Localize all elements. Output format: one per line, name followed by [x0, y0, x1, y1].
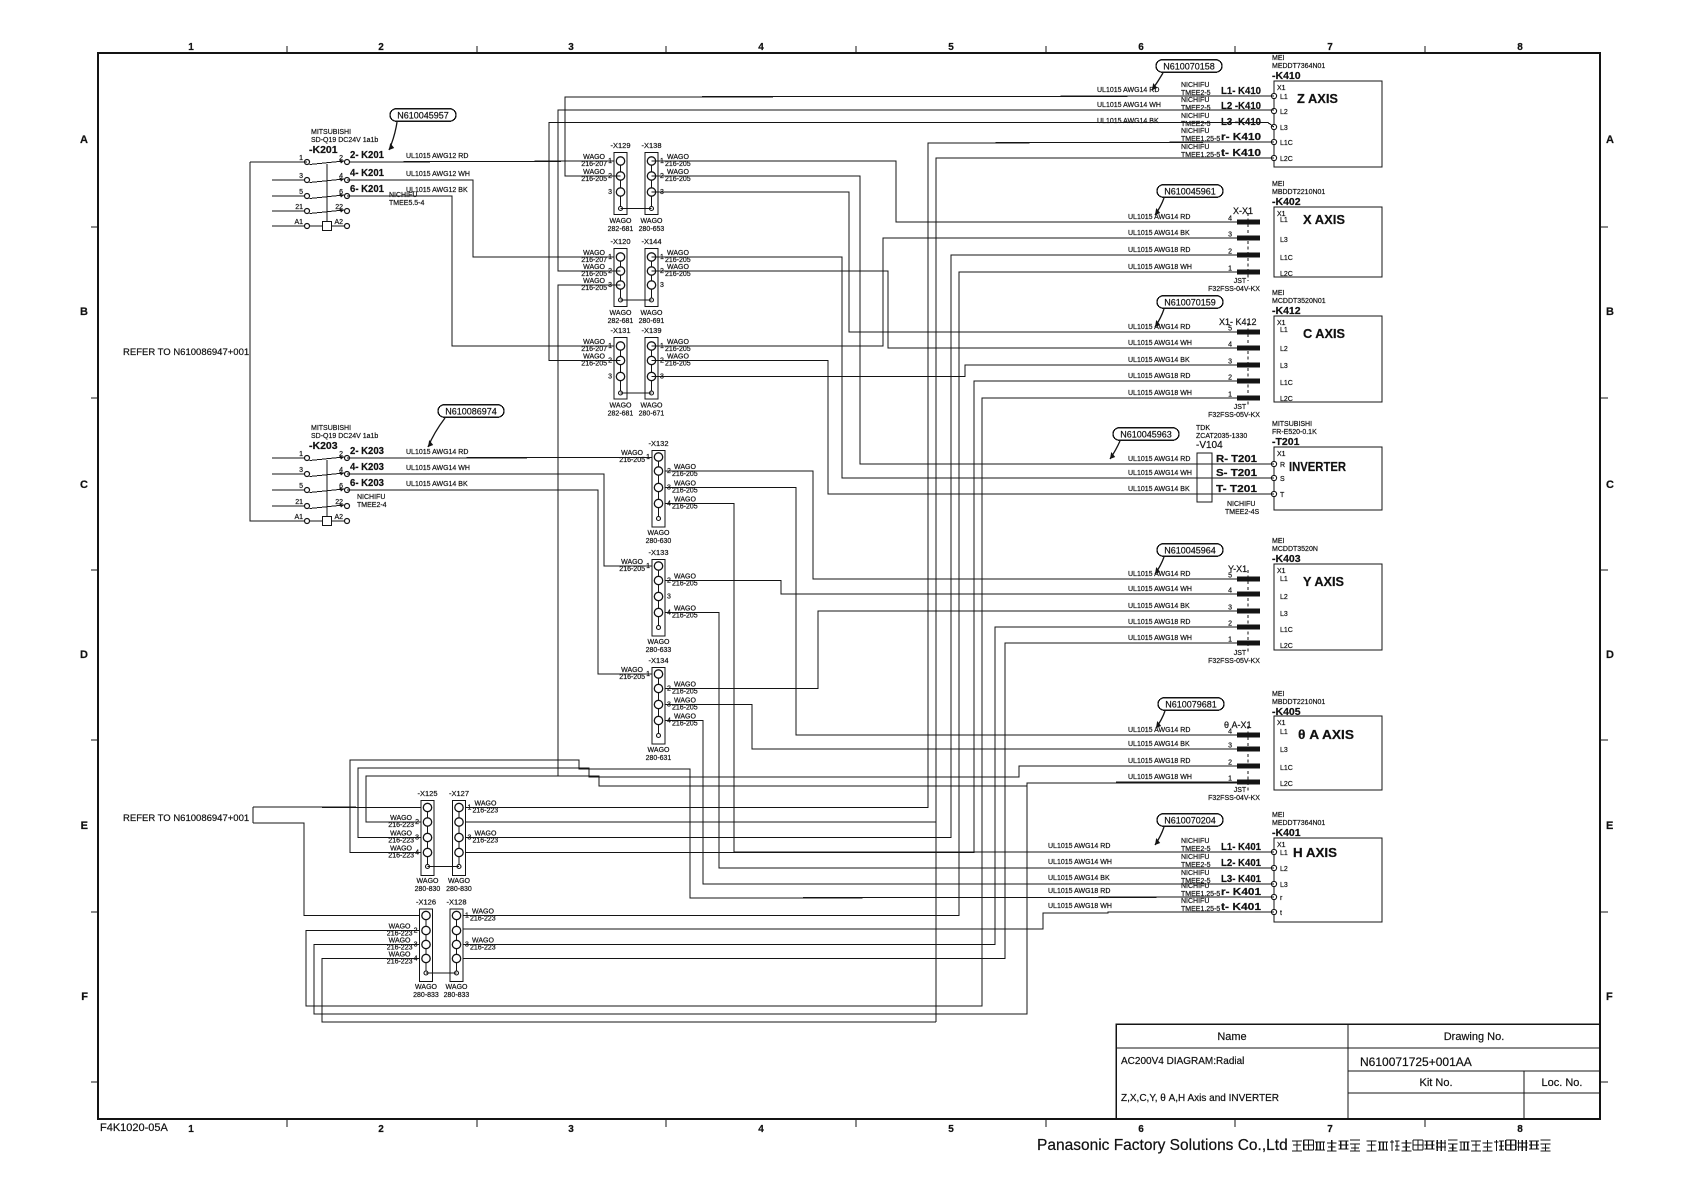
svg-text:WAGO: WAGO: [641, 403, 663, 410]
svg-text:L1: L1: [1280, 850, 1288, 857]
svg-text:B: B: [1606, 306, 1614, 318]
svg-text:21: 21: [295, 204, 303, 211]
svg-text:MEI: MEI: [1272, 55, 1285, 62]
svg-text:N610045957: N610045957: [397, 111, 449, 121]
svg-text:N610045964: N610045964: [1164, 546, 1216, 556]
svg-text:L2C: L2C: [1280, 271, 1293, 278]
svg-text:2: 2: [378, 42, 384, 53]
svg-text:-X138: -X138: [641, 141, 661, 150]
svg-text:MEDDT7364N01: MEDDT7364N01: [1272, 63, 1325, 70]
svg-text:L1C: L1C: [1280, 255, 1293, 262]
svg-text:2: 2: [378, 1124, 384, 1135]
svg-text:280-833: 280-833: [413, 992, 439, 999]
svg-text:WAGO: WAGO: [610, 403, 632, 410]
svg-text:UL1015 AWG14 BK: UL1015 AWG14 BK: [1128, 741, 1190, 748]
svg-text:NICHIFU: NICHIFU: [1181, 898, 1209, 905]
svg-text:WAGO: WAGO: [583, 264, 605, 271]
svg-text:TMEE2-4S: TMEE2-4S: [1225, 509, 1260, 516]
svg-text:216-205: 216-205: [619, 674, 645, 681]
svg-text:MITSUBISHI: MITSUBISHI: [1272, 421, 1312, 428]
svg-text:WAGO: WAGO: [621, 667, 643, 674]
svg-text:-K412: -K412: [1272, 305, 1301, 317]
svg-text:WAGO: WAGO: [667, 264, 689, 271]
svg-text:216-205: 216-205: [581, 271, 607, 278]
svg-text:5: 5: [299, 483, 303, 490]
svg-text:L1- K410: L1- K410: [1221, 86, 1261, 97]
svg-text:216-205: 216-205: [665, 161, 691, 168]
svg-text:280-830: 280-830: [446, 886, 472, 893]
svg-text:1: 1: [299, 451, 303, 458]
svg-text:NICHIFU: NICHIFU: [1181, 97, 1209, 104]
svg-text:216-205: 216-205: [672, 721, 698, 728]
svg-text:NICHIFU: NICHIFU: [1181, 870, 1209, 877]
svg-text:UL1015 AWG18 WH: UL1015 AWG18 WH: [1048, 903, 1112, 910]
svg-text:L2- K401: L2- K401: [1221, 858, 1261, 869]
svg-text:UL1015 AWG14 BK: UL1015 AWG14 BK: [1128, 486, 1190, 493]
svg-text:WAGO: WAGO: [621, 559, 643, 566]
svg-text:MEDDT7364N01: MEDDT7364N01: [1272, 820, 1325, 827]
svg-text:C AXIS: C AXIS: [1303, 327, 1345, 341]
svg-text:216-223: 216-223: [388, 838, 414, 845]
svg-text:r- K410: r- K410: [1221, 132, 1262, 143]
svg-text:216-205: 216-205: [672, 689, 698, 696]
svg-text:-X134: -X134: [648, 656, 668, 665]
svg-text:UL1015 AWG14 BK: UL1015 AWG14 BK: [1048, 875, 1110, 882]
svg-text:L2C: L2C: [1280, 643, 1293, 650]
svg-text:216-223: 216-223: [387, 959, 413, 966]
svg-text:A1: A1: [294, 514, 303, 521]
svg-text:X1: X1: [1277, 568, 1286, 575]
svg-text:3: 3: [568, 42, 574, 53]
svg-text:REFER TO N610086947+001: REFER TO N610086947+001: [123, 813, 249, 824]
svg-text:7: 7: [1327, 1124, 1333, 1135]
svg-text:H AXIS: H AXIS: [1293, 846, 1337, 860]
svg-text:WAGO: WAGO: [583, 154, 605, 161]
svg-text:3: 3: [608, 189, 612, 196]
svg-text:WAGO: WAGO: [674, 574, 696, 581]
svg-text:1: 1: [188, 1124, 194, 1135]
svg-text:8: 8: [1517, 1124, 1523, 1135]
svg-text:NICHIFU: NICHIFU: [1181, 838, 1209, 845]
svg-text:WAGO: WAGO: [415, 984, 437, 991]
svg-text:WAGO: WAGO: [648, 639, 670, 646]
svg-text:UL1015 AWG18 WH: UL1015 AWG18 WH: [1128, 390, 1192, 397]
svg-text:E: E: [81, 820, 88, 832]
svg-text:θ A AXIS: θ A AXIS: [1298, 728, 1354, 742]
svg-text:280-653: 280-653: [639, 226, 665, 233]
svg-text:MEI: MEI: [1272, 290, 1285, 297]
svg-text:F32FSS-05V-KX: F32FSS-05V-KX: [1208, 412, 1260, 419]
svg-text:L1: L1: [1280, 576, 1288, 583]
svg-text:X1- K412: X1- K412: [1219, 317, 1257, 327]
svg-text:3: 3: [608, 374, 612, 381]
svg-text:L1: L1: [1280, 729, 1288, 736]
svg-text:B: B: [80, 306, 88, 318]
svg-text:UL1015 AWG14 BK: UL1015 AWG14 BK: [406, 481, 468, 488]
svg-text:WAGO: WAGO: [641, 218, 663, 225]
svg-text:-X132: -X132: [648, 439, 668, 448]
svg-text:WAGO: WAGO: [583, 354, 605, 361]
svg-text:3: 3: [299, 467, 303, 474]
svg-text:L1C: L1C: [1280, 627, 1293, 634]
svg-text:3: 3: [568, 1124, 574, 1135]
svg-text:282-681: 282-681: [608, 411, 634, 418]
svg-text:NICHIFU: NICHIFU: [1181, 82, 1209, 89]
svg-text:UL1015 AWG14 WH: UL1015 AWG14 WH: [406, 465, 470, 472]
svg-text:WAGO: WAGO: [389, 952, 411, 959]
svg-text:-X144: -X144: [641, 237, 661, 246]
svg-text:216-205: 216-205: [665, 271, 691, 278]
svg-text:R: R: [1280, 462, 1285, 469]
svg-text:INVERTER: INVERTER: [1289, 460, 1346, 474]
svg-text:Y-X1: Y-X1: [1228, 564, 1247, 574]
svg-text:NICHIFU: NICHIFU: [1181, 144, 1209, 151]
svg-text:280-833: 280-833: [444, 992, 470, 999]
svg-text:280-671: 280-671: [639, 411, 665, 418]
svg-text:NICHIFU: NICHIFU: [1181, 113, 1209, 120]
svg-text:WAGO: WAGO: [583, 169, 605, 176]
svg-text:ZCAT2035-1330: ZCAT2035-1330: [1196, 433, 1247, 440]
svg-text:UL1015 AWG14 WH: UL1015 AWG14 WH: [1048, 859, 1112, 866]
svg-text:S- T201: S- T201: [1216, 468, 1257, 479]
svg-text:WAGO: WAGO: [610, 218, 632, 225]
svg-text:-X128: -X128: [446, 898, 466, 907]
svg-text:UL1015 AWG14 RD: UL1015 AWG14 RD: [1128, 214, 1190, 221]
svg-text:UL1015 AWG14 BK: UL1015 AWG14 BK: [1128, 603, 1190, 610]
svg-text:SD-Q19 DC24V 1a1b: SD-Q19 DC24V 1a1b: [311, 433, 378, 440]
svg-text:X AXIS: X AXIS: [1303, 213, 1345, 227]
svg-text:-X125: -X125: [417, 789, 437, 798]
svg-text:A1: A1: [294, 219, 303, 226]
svg-text:216-205: 216-205: [672, 705, 698, 712]
svg-text:7: 7: [1327, 42, 1333, 53]
svg-text:-K402: -K402: [1272, 196, 1301, 208]
svg-text:216-205: 216-205: [672, 504, 698, 511]
svg-text:WAGO: WAGO: [390, 846, 412, 853]
svg-text:L1- K401: L1- K401: [1221, 842, 1261, 853]
svg-text:216-223: 216-223: [473, 808, 499, 815]
svg-text:Panasonic Factory Solutions Co: Panasonic Factory Solutions Co.,Ltd: [1037, 1137, 1288, 1154]
svg-text:S: S: [1280, 476, 1285, 483]
svg-text:216-205: 216-205: [672, 471, 698, 478]
svg-text:WAGO: WAGO: [674, 682, 696, 689]
svg-text:WAGO: WAGO: [390, 815, 412, 822]
svg-text:216-205: 216-205: [672, 488, 698, 495]
svg-text:UL1015 AWG18 WH: UL1015 AWG18 WH: [1128, 635, 1192, 642]
svg-text:WAGO: WAGO: [475, 801, 497, 808]
svg-text:-X127: -X127: [449, 789, 469, 798]
svg-text:WAGO: WAGO: [621, 450, 643, 457]
svg-text:-K401: -K401: [1272, 827, 1301, 839]
svg-text:-X120: -X120: [610, 237, 630, 246]
svg-text:D: D: [80, 649, 88, 661]
svg-text:-X131: -X131: [610, 326, 630, 335]
svg-text:F: F: [1606, 991, 1613, 1003]
svg-text:MBDDT2210N01: MBDDT2210N01: [1272, 189, 1325, 196]
svg-text:UL1015 AWG14 RD: UL1015 AWG14 RD: [1128, 456, 1190, 463]
svg-text:MEI: MEI: [1272, 812, 1285, 819]
svg-text:N610070158: N610070158: [1163, 62, 1215, 72]
svg-text:216-205: 216-205: [672, 613, 698, 620]
svg-text:JST: JST: [1234, 787, 1247, 794]
svg-text:T- T201: T- T201: [1216, 484, 1258, 495]
svg-text:UL1015 AWG18 RD: UL1015 AWG18 RD: [1128, 373, 1190, 380]
svg-text:N610079681: N610079681: [1165, 700, 1217, 710]
svg-text:4: 4: [758, 1124, 764, 1135]
svg-text:C: C: [80, 479, 88, 491]
svg-text:216-223: 216-223: [388, 853, 414, 860]
svg-text:A2: A2: [334, 219, 343, 226]
svg-text:F4K1020-05A: F4K1020-05A: [100, 1122, 169, 1134]
svg-text:AC200V4 DIAGRAM:Radial: AC200V4 DIAGRAM:Radial: [1121, 1056, 1244, 1067]
svg-text:Z AXIS: Z AXIS: [1297, 92, 1338, 106]
svg-text:L3: L3: [1280, 882, 1288, 889]
svg-text:1: 1: [299, 155, 303, 162]
svg-text:UL1015 AWG12 RD: UL1015 AWG12 RD: [406, 153, 468, 160]
svg-text:A2: A2: [334, 514, 343, 521]
svg-text:MCDDT3520N01: MCDDT3520N01: [1272, 298, 1326, 305]
svg-text:4: 4: [758, 42, 764, 53]
svg-text:21: 21: [295, 499, 303, 506]
svg-text:NICHIFU: NICHIFU: [1227, 501, 1255, 508]
svg-text:UL1015 AWG18 RD: UL1015 AWG18 RD: [1128, 758, 1190, 765]
svg-text:-V104: -V104: [1196, 440, 1223, 451]
svg-text:UL1015 AWG14 BK: UL1015 AWG14 BK: [1097, 118, 1159, 125]
svg-text:UL1015 AWG14 RD: UL1015 AWG14 RD: [406, 449, 468, 456]
svg-text:-X133: -X133: [648, 548, 668, 557]
svg-text:216-205: 216-205: [581, 176, 607, 183]
svg-text:T: T: [1280, 492, 1285, 499]
svg-text:L1C: L1C: [1280, 765, 1293, 772]
svg-text:F32FSS-05V-KX: F32FSS-05V-KX: [1208, 658, 1260, 665]
svg-text:X1: X1: [1277, 320, 1286, 327]
svg-text:WAGO: WAGO: [674, 698, 696, 705]
svg-text:WAGO: WAGO: [667, 250, 689, 257]
svg-text:UL1015 AWG14 RD: UL1015 AWG14 RD: [1048, 843, 1110, 850]
svg-text:X1: X1: [1277, 842, 1286, 849]
svg-text:L1: L1: [1280, 217, 1288, 224]
svg-text:-K405: -K405: [1272, 706, 1301, 718]
svg-text:r- K401: r- K401: [1221, 887, 1262, 898]
svg-text:5: 5: [299, 189, 303, 196]
svg-text:-K203: -K203: [309, 440, 338, 452]
svg-text:UL1015 AWG14 WH: UL1015 AWG14 WH: [1128, 470, 1192, 477]
svg-text:216-205: 216-205: [665, 346, 691, 353]
svg-text:L1: L1: [1280, 94, 1288, 101]
svg-text:L1C: L1C: [1280, 380, 1293, 387]
svg-text:Loc. No.: Loc. No.: [1542, 1077, 1583, 1089]
svg-text:MBDDT2210N01: MBDDT2210N01: [1272, 699, 1325, 706]
svg-text:F32FSS-04V-KX: F32FSS-04V-KX: [1208, 795, 1260, 802]
svg-text:NICHIFU: NICHIFU: [1181, 128, 1209, 135]
svg-text:5: 5: [948, 42, 954, 53]
svg-text:WAGO: WAGO: [674, 606, 696, 613]
svg-text:JST: JST: [1234, 650, 1247, 657]
svg-text:WAGO: WAGO: [475, 831, 497, 838]
svg-text:WAGO: WAGO: [674, 497, 696, 504]
svg-text:L3: L3: [1280, 611, 1288, 618]
svg-text:N610070159: N610070159: [1164, 298, 1216, 308]
svg-text:A: A: [1606, 134, 1614, 146]
svg-text:L2C: L2C: [1280, 781, 1293, 788]
svg-text:UL1015 AWG14 WH: UL1015 AWG14 WH: [1097, 102, 1161, 109]
svg-text:WAGO: WAGO: [583, 339, 605, 346]
svg-text:216-207: 216-207: [581, 346, 607, 353]
svg-text:2- K201: 2- K201: [350, 150, 384, 161]
svg-text:280-830: 280-830: [415, 886, 441, 893]
svg-text:N610045963: N610045963: [1120, 430, 1172, 440]
svg-text:282-681: 282-681: [608, 318, 634, 325]
svg-text:N610086974: N610086974: [445, 407, 497, 417]
svg-text:UL1015 AWG18 RD: UL1015 AWG18 RD: [1128, 247, 1190, 254]
svg-text:WAGO: WAGO: [610, 310, 632, 317]
svg-text:4- K201: 4- K201: [350, 168, 384, 179]
svg-text:WAGO: WAGO: [389, 938, 411, 945]
svg-text:L1C: L1C: [1280, 140, 1293, 147]
svg-text:WAGO: WAGO: [667, 154, 689, 161]
svg-text:WAGO: WAGO: [446, 984, 468, 991]
svg-text:WAGO: WAGO: [417, 878, 439, 885]
svg-text:UL1015 AWG18 WH: UL1015 AWG18 WH: [1128, 774, 1192, 781]
svg-text:NICHIFU: NICHIFU: [357, 494, 385, 501]
svg-text:3: 3: [667, 594, 671, 601]
svg-text:-X129: -X129: [610, 141, 630, 150]
svg-text:t: t: [1280, 910, 1282, 917]
svg-text:-K403: -K403: [1272, 553, 1301, 565]
svg-text:L3: L3: [1280, 237, 1288, 244]
svg-text:WAGO: WAGO: [390, 831, 412, 838]
svg-text:WAGO: WAGO: [472, 909, 494, 916]
svg-text:UL1015 AWG14 BK: UL1015 AWG14 BK: [1128, 230, 1190, 237]
svg-text:6- K201: 6- K201: [350, 184, 384, 195]
svg-text:TMEE5.5-4: TMEE5.5-4: [389, 200, 425, 207]
svg-text:NICHIFU: NICHIFU: [1181, 854, 1209, 861]
svg-text:216-223: 216-223: [470, 945, 496, 952]
svg-text:280-633: 280-633: [646, 647, 672, 654]
svg-text:WAGO: WAGO: [583, 278, 605, 285]
svg-text:216-223: 216-223: [387, 945, 413, 952]
svg-text:TMEE2-5: TMEE2-5: [1181, 105, 1211, 112]
svg-text:280-630: 280-630: [646, 538, 672, 545]
svg-text:MITSUBISHI: MITSUBISHI: [311, 129, 351, 136]
svg-text:6: 6: [1138, 1124, 1144, 1135]
svg-text:WAGO: WAGO: [674, 714, 696, 721]
svg-text:216-223: 216-223: [388, 822, 414, 829]
svg-text:WAGO: WAGO: [583, 250, 605, 257]
svg-text:216-205: 216-205: [581, 361, 607, 368]
svg-text:X1: X1: [1277, 451, 1286, 458]
svg-text:216-205: 216-205: [581, 285, 607, 292]
svg-text:UL1015 AWG14 WH: UL1015 AWG14 WH: [1128, 340, 1192, 347]
svg-text:TMEE2-4: TMEE2-4: [357, 502, 387, 509]
svg-text:REFER TO N610086947+001: REFER TO N610086947+001: [123, 347, 249, 358]
svg-text:-X139: -X139: [641, 326, 661, 335]
svg-text:2- K203: 2- K203: [350, 446, 384, 457]
svg-text:216-223: 216-223: [387, 931, 413, 938]
svg-text:UL1015 AWG18 RD: UL1015 AWG18 RD: [1128, 619, 1190, 626]
svg-text:216-207: 216-207: [581, 257, 607, 264]
svg-text:216-223: 216-223: [473, 838, 499, 845]
svg-text:4- K203: 4- K203: [350, 462, 384, 473]
svg-text:X1: X1: [1277, 85, 1286, 92]
svg-text:UL1015 AWG12 WH: UL1015 AWG12 WH: [406, 171, 470, 178]
svg-text:MCDDT3520N: MCDDT3520N: [1272, 546, 1318, 553]
svg-text:θ A-X1: θ A-X1: [1224, 720, 1252, 730]
svg-text:WAGO: WAGO: [667, 354, 689, 361]
svg-text:-T201: -T201: [1272, 436, 1300, 448]
svg-text:L3: L3: [1280, 125, 1288, 132]
svg-text:C: C: [1606, 479, 1614, 491]
svg-text:L3- K401: L3- K401: [1221, 874, 1261, 885]
svg-text:UL1015 AWG14 RD: UL1015 AWG14 RD: [1097, 87, 1159, 94]
svg-text:t- K410: t- K410: [1221, 148, 1262, 159]
svg-text:WAGO: WAGO: [472, 938, 494, 945]
svg-text:WAGO: WAGO: [667, 169, 689, 176]
svg-text:MEI: MEI: [1272, 691, 1285, 698]
svg-text:Y AXIS: Y AXIS: [1303, 575, 1344, 589]
svg-text:UL1015 AWG14 WH: UL1015 AWG14 WH: [1128, 586, 1192, 593]
svg-text:SD-Q19 DC24V 1a1b: SD-Q19 DC24V 1a1b: [311, 137, 378, 144]
svg-text:JST: JST: [1234, 404, 1247, 411]
svg-text:L2: L2: [1280, 109, 1288, 116]
svg-text:8: 8: [1517, 42, 1523, 53]
svg-text:X1: X1: [1277, 720, 1286, 727]
svg-text:216-205: 216-205: [672, 581, 698, 588]
svg-text:E: E: [1606, 820, 1613, 832]
svg-text:-K410: -K410: [1272, 70, 1301, 82]
svg-text:UL1015 AWG18 RD: UL1015 AWG18 RD: [1048, 888, 1110, 895]
svg-text:3: 3: [299, 173, 303, 180]
svg-text:L3: L3: [1280, 363, 1288, 370]
svg-text:FR-E520-0.1K: FR-E520-0.1K: [1272, 429, 1317, 436]
svg-text:TDK: TDK: [1196, 425, 1210, 432]
svg-text:282-681: 282-681: [608, 226, 634, 233]
svg-text:WAGO: WAGO: [648, 530, 670, 537]
svg-text:216-205: 216-205: [665, 361, 691, 368]
svg-text:280-691: 280-691: [639, 318, 665, 325]
svg-text:5: 5: [948, 1124, 954, 1135]
svg-text:216-205: 216-205: [665, 257, 691, 264]
svg-text:1: 1: [188, 42, 194, 53]
svg-text:WAGO: WAGO: [667, 339, 689, 346]
svg-text:X-X1: X-X1: [1233, 206, 1253, 216]
svg-text:WAGO: WAGO: [648, 747, 670, 754]
svg-text:A: A: [80, 134, 88, 146]
svg-text:N610071725+001AA: N610071725+001AA: [1360, 1055, 1472, 1069]
svg-text:Drawing No.: Drawing No.: [1444, 1031, 1505, 1043]
svg-text:6- K203: 6- K203: [350, 478, 384, 489]
svg-text:UL1015 AWG14 RD: UL1015 AWG14 RD: [1128, 727, 1190, 734]
svg-text:JST: JST: [1234, 278, 1247, 285]
svg-text:216-207: 216-207: [581, 161, 607, 168]
svg-text:WAGO: WAGO: [674, 464, 696, 471]
svg-text:t- K401: t- K401: [1221, 902, 1262, 913]
svg-text:L2C: L2C: [1280, 156, 1293, 163]
svg-text:280-631: 280-631: [646, 755, 672, 762]
svg-text:L2: L2: [1280, 866, 1288, 873]
svg-text:N610070204: N610070204: [1164, 816, 1216, 826]
svg-text:UL1015 AWG14 BK: UL1015 AWG14 BK: [1128, 357, 1190, 364]
svg-text:N610045961: N610045961: [1164, 187, 1216, 197]
svg-text:D: D: [1606, 649, 1614, 661]
svg-text:L1: L1: [1280, 327, 1288, 334]
svg-text:3: 3: [660, 282, 664, 289]
svg-text:F32FSS-04V-KX: F32FSS-04V-KX: [1208, 286, 1260, 293]
svg-text:-X126: -X126: [416, 898, 436, 907]
svg-text:L2C: L2C: [1280, 396, 1293, 403]
svg-text:MEI: MEI: [1272, 538, 1285, 545]
svg-text:L2: L2: [1280, 594, 1288, 601]
